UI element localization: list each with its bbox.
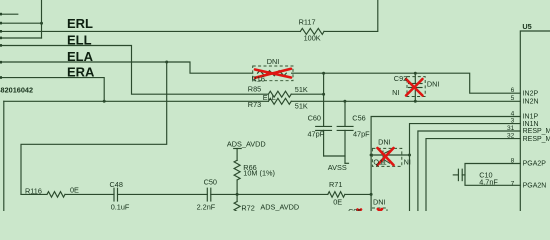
svg-text:R117: R117 bbox=[299, 17, 316, 26]
wire C56 bottom to AVSS stub bbox=[344, 130, 346, 163]
capacitor C50 plates bbox=[206, 188, 208, 201]
wire long net to IC pin 5 IN2N bbox=[4, 100, 269, 102]
svg-text:0.1uF: 0.1uF bbox=[111, 203, 130, 211]
svg-text:R116: R116 bbox=[25, 186, 42, 195]
svg-text:IN1N: IN1N bbox=[523, 121, 539, 128]
svg-text:3: 3 bbox=[511, 117, 515, 124]
wire R85 right end to C60 node bbox=[291, 93, 323, 95]
svg-text:RESP_ME: RESP_ME bbox=[523, 128, 550, 135]
svg-text:7: 7 bbox=[511, 181, 515, 188]
svg-text:RESP_MO: RESP_MO bbox=[523, 136, 550, 143]
wire AVSS bar bbox=[324, 155, 345, 157]
svg-text:C60: C60 bbox=[308, 114, 321, 123]
wire R73 right to IC pin 5 bbox=[291, 100, 520, 102]
svg-text:47pF: 47pF bbox=[353, 129, 370, 138]
IC U5 outline bbox=[520, 31, 550, 211]
power ADS_AVDD bar and drop bbox=[234, 148, 242, 150]
wire net ELL bbox=[0, 46, 268, 95]
svg-text:ERL: ERL bbox=[67, 16, 93, 31]
transistor Q11 DNI box bbox=[372, 148, 401, 166]
svg-text:R16: R16 bbox=[252, 74, 265, 83]
svg-text:ELL: ELL bbox=[67, 33, 92, 48]
wire IC pin 8 PGA2P to C10 loop to pin 7 PGA2N bbox=[465, 164, 520, 186]
wire left vertical to bottom edge bbox=[3, 101, 5, 211]
wire IC pin 3 IN1N net bbox=[410, 124, 521, 211]
resistor R71 bbox=[328, 192, 345, 198]
capacitor C56 plates bbox=[337, 125, 353, 127]
wire ELA branch down-left-down to R116 bbox=[21, 62, 167, 194]
svg-text:100K: 100K bbox=[304, 34, 321, 43]
svg-text:51K: 51K bbox=[295, 101, 308, 110]
svg-text:32: 32 bbox=[507, 132, 515, 139]
wire IC pin 4 IN1P net bbox=[371, 117, 520, 212]
svg-text:R71: R71 bbox=[329, 180, 342, 189]
svg-text:C50: C50 bbox=[204, 177, 217, 186]
svg-text:4: 4 bbox=[511, 110, 515, 117]
wire C50 to R71 bbox=[211, 193, 328, 195]
svg-text:AVSS: AVSS bbox=[328, 163, 347, 172]
wire stub top-left bbox=[0, 13, 18, 15]
wire net ERA bbox=[0, 78, 104, 102]
svg-text:47pF: 47pF bbox=[308, 129, 325, 138]
resistor R117 bbox=[300, 28, 324, 34]
svg-text:PGA2N: PGA2N bbox=[523, 183, 547, 190]
resistor R16 DNI box bbox=[253, 66, 293, 81]
wire IC pin 31 RESP net bbox=[418, 131, 520, 211]
svg-text:IN2P: IN2P bbox=[523, 90, 539, 97]
svg-text:31: 31 bbox=[507, 125, 515, 132]
svg-text:DNI: DNI bbox=[267, 57, 280, 66]
svg-text:10M (1%): 10M (1%) bbox=[243, 168, 275, 177]
resistor R16 (DNI) bbox=[258, 71, 287, 76]
wire net ERL bbox=[0, 30, 300, 32]
svg-text:R73: R73 bbox=[248, 100, 261, 109]
capacitor C10 stub and plates bbox=[462, 174, 465, 176]
svg-text:R72: R72 bbox=[241, 204, 254, 211]
resistor R72 vertical (cut at bottom) bbox=[236, 194, 238, 201]
svg-text:C48: C48 bbox=[110, 180, 123, 189]
svg-text:0E: 0E bbox=[333, 197, 342, 206]
wire ERL right of R117 up to top edge bbox=[324, 0, 378, 31]
svg-text:ERA: ERA bbox=[67, 64, 95, 79]
svg-text:ELL: ELL bbox=[263, 93, 276, 102]
red X DNI mark bottom (cut) bbox=[357, 209, 382, 213]
svg-text:NI: NI bbox=[392, 88, 399, 97]
wire C48 to C50 bbox=[118, 193, 208, 195]
svg-text:C96: C96 bbox=[348, 207, 361, 211]
capacitor C56 string vertical top bbox=[344, 101, 346, 126]
svg-text:ADS_AVDD: ADS_AVDD bbox=[260, 202, 299, 211]
svg-text:8: 8 bbox=[511, 157, 515, 164]
svg-text:IN2N: IN2N bbox=[523, 99, 539, 106]
resistor R73 bbox=[268, 98, 291, 104]
wire C60 bottom bbox=[323, 130, 325, 156]
svg-text:C56: C56 bbox=[352, 114, 365, 123]
red X DNI mark over Q11 bbox=[378, 148, 394, 165]
wire R66 bottom to node bbox=[236, 180, 238, 194]
wire second stub to vertical bbox=[0, 22, 42, 24]
red X DNI mark over R16 bbox=[255, 69, 291, 78]
svg-text:DNI: DNI bbox=[378, 138, 391, 147]
left edge pin ticks bbox=[0, 13, 2, 79]
capacitor C92 (DNI) vertical and plates bbox=[414, 73, 416, 83]
svg-text:U5: U5 bbox=[522, 22, 531, 31]
capacitor C60 plates bbox=[316, 125, 332, 127]
resistor R116 bbox=[47, 192, 65, 198]
red X DNI mark over C92 bbox=[406, 79, 423, 96]
svg-text:IN1P: IN1P bbox=[523, 114, 539, 121]
wire IC pin 32 RESP net bbox=[426, 139, 520, 211]
svg-text:0E: 0E bbox=[70, 185, 79, 194]
svg-text:PGA2P: PGA2P bbox=[523, 161, 547, 168]
wire vertical bus x=41.5 bbox=[41, 0, 43, 38]
svg-text:ADS_AVDD: ADS_AVDD bbox=[227, 139, 266, 148]
dashed DNI boxes bbox=[253, 66, 426, 211]
capacitor C48 plates bbox=[113, 188, 115, 201]
transistor Q11 symbol hints bbox=[383, 151, 390, 164]
capacitor C60 string vertical top bbox=[323, 73, 325, 126]
svg-text:4.7nF: 4.7nF bbox=[479, 177, 498, 186]
svg-text:Q11: Q11 bbox=[373, 158, 386, 167]
svg-text:ELA: ELA bbox=[67, 49, 94, 64]
svg-text:DNI: DNI bbox=[427, 80, 440, 89]
svg-text:482016042: 482016042 bbox=[0, 86, 33, 95]
svg-text:51K: 51K bbox=[295, 85, 308, 94]
wire y=38 to left edge bbox=[0, 37, 42, 39]
svg-text:6: 6 bbox=[511, 87, 515, 94]
svg-text:5: 5 bbox=[511, 95, 515, 102]
svg-text:2.2nF: 2.2nF bbox=[197, 202, 216, 211]
wire transistor Q11 link bbox=[371, 154, 409, 156]
wire to C48 bbox=[65, 193, 114, 195]
capacitor C9x DNI box (cut at bottom) bbox=[372, 208, 387, 211]
wire R71 to IN1P vertical bbox=[345, 193, 371, 195]
wire bottom rail left bbox=[21, 193, 47, 195]
wire R16 output to IC pin 6 IN2P bbox=[292, 73, 521, 93]
capacitor C92 DNI box bbox=[407, 77, 425, 97]
svg-text:C92: C92 bbox=[394, 74, 407, 83]
svg-text:DNI: DNI bbox=[373, 198, 386, 207]
wire net ELA bbox=[0, 62, 253, 73]
svg-text:NI: NI bbox=[404, 158, 411, 167]
wire AVSS tick bbox=[345, 162, 349, 164]
resistor R66 vertical bbox=[234, 160, 240, 180]
svg-text:R85: R85 bbox=[248, 84, 261, 93]
resistor R85 bbox=[268, 91, 291, 97]
